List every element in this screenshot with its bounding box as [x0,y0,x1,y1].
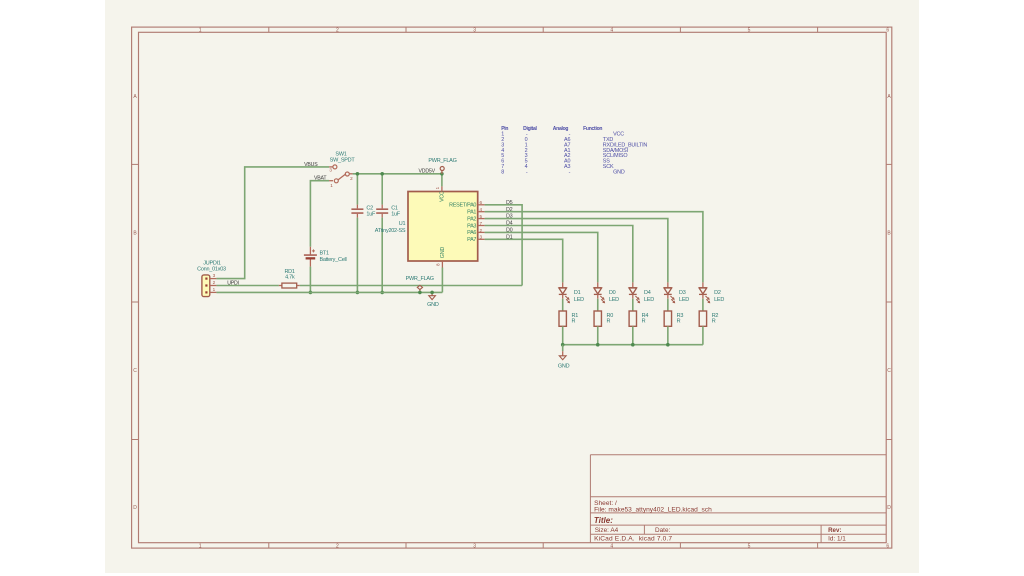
svg-text:3: 3 [329,167,332,172]
junction LED rail [596,343,600,347]
wire R0 to gnd rail [597,326,599,344]
svg-text:U1: U1 [399,221,406,227]
svg-text:D: D [133,505,137,511]
svg-text:Size: A4: Size: A4 [595,527,619,534]
resistor R0 [594,311,601,326]
svg-text:1: 1 [199,28,202,34]
svg-text:Conn_01x03: Conn_01x03 [197,267,226,273]
wire R4 to gnd rail [632,326,634,344]
svg-text:VBUS: VBUS [304,162,318,168]
LED D0 [594,282,605,303]
svg-text:R: R [572,318,576,324]
svg-text:PWR_FLAG: PWR_FLAG [406,276,434,282]
resistor R3 [664,311,671,326]
capacitor C2 1uF [351,174,363,293]
svg-text:6: 6 [480,200,483,205]
svg-text:LED: LED [679,297,689,303]
svg-text:LED: LED [574,297,584,303]
svg-text:3: 3 [213,273,216,278]
svg-text:D2: D2 [714,290,721,296]
wire VDD5V rail from switch common to MCU VCC [353,173,442,175]
svg-text:Date:: Date: [655,527,670,534]
svg-text:2: 2 [336,28,339,34]
svg-text:3: 3 [473,28,476,34]
svg-text:JUPDI1: JUPDI1 [203,260,221,266]
svg-text:LED: LED [609,297,619,303]
svg-text:ATtiny202-SS: ATtiny202-SS [375,228,406,234]
svg-text:2: 2 [336,543,339,549]
svg-text:BT1: BT1 [320,250,330,256]
wire UPDI/RESET rail RD1 to D5 drop [300,285,522,287]
svg-text:D: D [887,505,891,511]
svg-text:GND: GND [427,302,439,308]
svg-text:5: 5 [480,214,483,219]
resistor R1 [559,311,566,326]
resistor R4 [629,311,636,326]
junction C2 bottom [356,291,360,295]
svg-text:C: C [887,368,891,374]
svg-text:Battery_Cell: Battery_Cell [320,257,347,263]
pin 4 PA1 (U1) [478,211,485,213]
svg-text:D4: D4 [644,290,651,296]
wire R2 to gnd rail [702,326,704,344]
wire net D3 to LED column [485,219,668,283]
wire LED ground rail [563,344,703,346]
wire R1 to gnd rail [562,326,564,344]
wire net D0 to LED column [485,232,598,282]
svg-text:Rev:: Rev: [828,527,841,534]
svg-text:R: R [607,318,611,324]
title block [590,454,886,456]
svg-text:C: C [133,368,137,374]
pin 3 PA7 (U1) [478,238,485,240]
svg-text:4: 4 [610,543,613,549]
battery BT1 Battery_Cell [304,247,317,267]
svg-text:1uF: 1uF [391,211,401,217]
junction battery/GND rail [309,291,313,295]
svg-text:File: make53_attyny402_LED.kic: File: make53_attyny402_LED.kicad_sch [594,507,712,514]
svg-text:6: 6 [886,543,889,549]
junction LED rail [631,343,635,347]
svg-text:GND: GND [440,247,446,259]
svg-text:PA6: PA6 [467,230,476,236]
svg-text:5: 5 [748,28,751,34]
svg-text:D0: D0 [609,290,616,296]
LED D1 [559,282,570,303]
junction LED rail [561,343,565,347]
svg-text:D1: D1 [574,290,581,296]
svg-text:KiCad E.D.A. kicad 7.0.7: KiCad E.D.A. kicad 7.0.7 [594,535,672,542]
wire D3 to R3 [667,299,669,312]
svg-text:4: 4 [480,207,483,212]
svg-text:8: 8 [501,170,504,176]
wire net D4 to LED column [485,226,633,283]
svg-text:3: 3 [480,235,483,240]
svg-text:VCC: VCC [440,191,446,202]
wire UPDI net: connector pin2 to RD1 [216,285,279,287]
svg-text:SW_SPDT: SW_SPDT [330,157,356,163]
svg-text:Analog: Analog [553,126,569,132]
resistor R2 [699,311,706,326]
junction C1 top [380,172,384,176]
switch SW1 SW_SPDT [329,165,353,183]
svg-text:2: 2 [480,228,483,233]
wire net D2 to LED column [485,212,703,283]
junction VDD5V/PWR_FLAG [440,172,444,176]
svg-text:UPDI: UPDI [227,281,239,287]
svg-text:1: 1 [199,543,202,549]
ground symbol (center) [429,292,436,299]
wire net D5: RESET/PA0 to UPDI rail [485,205,522,286]
pin 7 PA3 (U1) [478,225,485,227]
svg-text:PA7: PA7 [467,237,476,243]
LED D3 [664,282,675,303]
svg-text:PWR_FLAG: PWR_FLAG [428,158,456,164]
wire battery minus to GND rail [309,267,311,293]
pin 5 PA2 (U1) [478,218,485,220]
connector JUPDI1 Conn_01x03 [202,275,210,297]
wire D4 to R4 [632,299,634,312]
svg-text:D3: D3 [679,290,686,296]
svg-text:PA3: PA3 [467,223,476,229]
junction C1 bottom [380,291,384,295]
svg-text:VDD5V: VDD5V [419,169,436,175]
wire GND rail [216,291,442,293]
pin 8 GND (U1) [441,261,443,268]
svg-text:3: 3 [473,543,476,549]
svg-text:R: R [642,318,646,324]
junction PWR_FLAG/GND rail [418,291,422,295]
wire VDD5V drop to U1 VCC pin [441,174,443,187]
wire D1 to R1 [562,299,564,312]
svg-text:VBAT: VBAT [314,176,327,182]
svg-text:4.7k: 4.7k [285,275,295,281]
junction GND symbol/rail [430,291,434,295]
power flag PWR_FLAG (VDD5V) [440,167,444,174]
resistor RD1 4.7k [279,283,300,288]
LED D2 [699,282,710,303]
svg-text:LED: LED [644,297,654,303]
svg-text:PA2: PA2 [467,216,476,222]
wire R3 to gnd rail [667,326,669,344]
svg-text:7: 7 [480,221,483,226]
svg-text:Title:: Title: [594,516,613,525]
wire U1 GND to rail [441,268,443,293]
pin 2 PA6 (U1) [478,231,485,233]
wire VBAT net: switch pin1 to battery top [310,181,329,247]
svg-text:6: 6 [886,28,889,34]
pin 6 RESET/PA0 (U1) [478,204,485,206]
wire D2 to R2 [702,299,704,312]
capacitor C1 1uF [376,174,388,293]
svg-text:1: 1 [330,183,333,188]
svg-text:RESET/PA0: RESET/PA0 [449,203,476,209]
svg-text:PA1: PA1 [467,210,476,216]
LED D4 [629,282,640,303]
svg-text:1: 1 [213,287,216,292]
op-amp U1 ATtiny202-SS microcontroller body [408,192,478,262]
wire D0 to R0 [597,299,599,312]
svg-text:2: 2 [213,280,216,285]
wire net D1 to LED column [485,239,563,282]
svg-text:LED: LED [714,297,724,303]
pin 1 VCC (U1) [441,186,443,191]
svg-text:VCC: VCC [613,131,624,137]
ground symbol (LED rail) [559,345,566,360]
svg-text:Id: 1/1: Id: 1/1 [828,535,846,542]
svg-text:4: 4 [610,28,613,34]
power flag PWR_FLAG (GND) [417,285,422,292]
svg-text:R: R [712,318,716,324]
svg-text:2: 2 [350,176,353,181]
wire VBUS net: connector pin3 up and across to switch [216,167,329,279]
junction C2 top [356,172,360,176]
svg-text:5: 5 [748,543,751,549]
svg-text:GND: GND [558,363,570,369]
junction LED rail [666,343,670,347]
svg-text:R: R [677,318,681,324]
svg-text:GND: GND [613,170,625,176]
svg-text:Function: Function [583,126,602,132]
svg-text:1uF: 1uF [366,211,376,217]
